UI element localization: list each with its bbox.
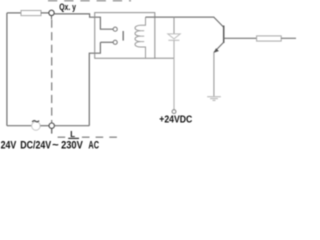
wire: resistor to edge bbox=[281, 37, 296, 39]
relay coil bbox=[135, 17, 146, 58]
resistor (load, left) bbox=[21, 11, 41, 16]
wire: diode branch vertical lower bbox=[173, 40, 175, 109]
wire: top rail (coil to transistor collector) bbox=[146, 16, 215, 18]
transistor Q1 emitter lead with arrow bbox=[214, 42, 224, 52]
wire: diode branch vertical upper bbox=[173, 17, 175, 33]
svg-text:Qx. y: Qx. y bbox=[59, 2, 76, 12]
left dashed border bbox=[51, 20, 53, 124]
label L underline bbox=[68, 137, 79, 139]
diode (freewheel) bbox=[168, 34, 180, 39]
wire: left loop top bbox=[7, 12, 21, 14]
relay coil junction ticks bbox=[141, 31, 145, 42]
relay contact upper circle bbox=[113, 27, 117, 31]
terminal Qx.y circle bbox=[49, 10, 54, 15]
wire: right vertical up to contact bbox=[89, 42, 100, 125]
terminal +24VDC circle bbox=[172, 110, 176, 114]
wire: source to terminal L bbox=[40, 125, 49, 127]
wire: box bottom extension to diode branch bbox=[155, 57, 174, 59]
top dashed border bbox=[48, 0, 131, 2]
wire: contact lower stub bbox=[100, 41, 113, 43]
svg-text:+24VDC: +24VDC bbox=[159, 114, 192, 126]
relay K1 box bbox=[95, 13, 155, 59]
ground bbox=[207, 97, 221, 101]
wire: bottom rail left bbox=[7, 125, 32, 127]
wire: emitter to ground bbox=[213, 52, 215, 96]
wire: left vertical bbox=[6, 13, 8, 126]
resistor (base drive) bbox=[257, 36, 282, 41]
transistor Q1 base bar bbox=[223, 26, 225, 44]
wire: Qx terminal to relay contact bbox=[54, 14, 113, 29]
bottom dashed border bbox=[58, 136, 117, 138]
terminal Qx.y stub below bbox=[51, 16, 53, 20]
terminal L circle bbox=[49, 123, 54, 128]
wire: bottom rail right of terminal bbox=[54, 125, 89, 127]
transistor Q1 collector lead bbox=[214, 17, 224, 27]
wire: base to resistor bbox=[224, 37, 257, 39]
relay contact lower circle bbox=[113, 40, 117, 44]
terminal L stub below bbox=[51, 129, 53, 134]
relay contact bar bbox=[122, 31, 124, 41]
AC/DC source bbox=[32, 122, 41, 131]
wire: resistor to Qx terminal bbox=[41, 12, 49, 14]
